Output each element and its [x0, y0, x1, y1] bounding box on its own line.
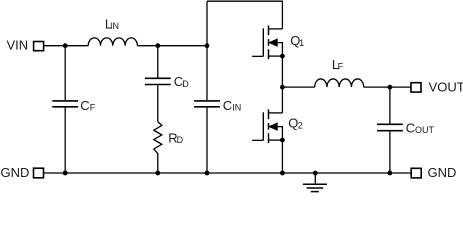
node dot (C_D top): [155, 43, 160, 48]
svg-text:D: D: [177, 135, 184, 145]
svg-text:C: C: [223, 98, 232, 113]
svg-text:IN: IN: [232, 103, 241, 113]
svg-text:GND: GND: [1, 165, 30, 180]
svg-text:IN: IN: [110, 21, 119, 31]
capacitor C_IN: [194, 1, 220, 173]
wire switch node: [281, 56, 283, 113]
wire switch node to L_F: [282, 86, 314, 88]
node dot (C_OUT bottom): [388, 171, 393, 176]
terminal VIN: [34, 42, 44, 51]
svg-text:F: F: [338, 62, 344, 72]
transistor Q1: [252, 25, 282, 59]
svg-text:D: D: [182, 79, 189, 89]
node dot (R_D bottom): [155, 171, 160, 176]
ground: [303, 173, 327, 192]
svg-text:F: F: [90, 102, 96, 112]
node dot (C_F bottom): [63, 171, 68, 176]
transistor Q2: [252, 109, 282, 143]
node dot (C_OUT top): [388, 85, 393, 90]
wire Q2 source to GND rail: [281, 140, 283, 173]
capacitor C_D: [145, 46, 171, 122]
svg-text:C: C: [80, 98, 89, 113]
node dot (Q1 source): [280, 54, 285, 59]
wire VIN rail (L_IN to C_IN): [137, 45, 207, 47]
wire bottom GND rail: [44, 172, 412, 174]
svg-text:2: 2: [298, 121, 303, 131]
svg-text:1: 1: [299, 38, 304, 48]
inductor L_F: [315, 79, 364, 87]
node dot (Q2 source rail junction): [280, 171, 285, 176]
node dot (C_IN bottom): [205, 171, 210, 176]
terminal GND right: [411, 168, 421, 178]
svg-text:GND: GND: [428, 165, 457, 180]
resistor R_D: [154, 122, 162, 173]
inductor L_IN: [88, 38, 137, 46]
svg-text:VIN: VIN: [7, 38, 29, 53]
svg-text:OUT: OUT: [415, 125, 435, 135]
capacitor C_OUT: [377, 87, 403, 173]
capacitor C_F: [52, 46, 78, 173]
svg-text:VOUT: VOUT: [429, 80, 463, 95]
terminal VOUT: [411, 83, 421, 92]
wire L_F to VOUT: [364, 86, 411, 88]
svg-text:C: C: [406, 120, 415, 135]
node dot (Q2 source): [280, 138, 285, 143]
node dot (switch node / L_F): [280, 85, 285, 90]
node dot A (C_F top): [63, 43, 68, 48]
wire VIN rail (terminal to L_IN): [44, 45, 89, 47]
wire top rail to Q1 drain: [207, 1, 282, 29]
node dot (C_IN top): [205, 43, 210, 48]
node dot (ground stem junction): [313, 171, 318, 176]
terminal GND left: [34, 168, 44, 178]
